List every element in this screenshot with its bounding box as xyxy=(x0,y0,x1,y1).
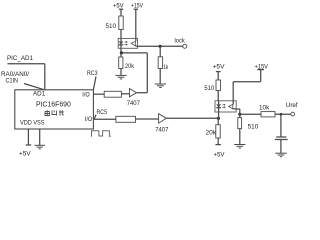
resistor 10k (output series) xyxy=(259,105,275,117)
clock waveform symbol xyxy=(91,131,111,137)
svg-text:510: 510 xyxy=(106,23,117,30)
ground (below 1k) xyxy=(155,84,166,88)
resistor 20k (pull to +5V) xyxy=(206,118,221,144)
terminal lock xyxy=(175,37,187,48)
wire RC3 pin xyxy=(93,93,104,95)
wire emitter node to 10k xyxy=(240,113,261,115)
svg-text:7407: 7407 xyxy=(127,100,140,107)
net label PIC_AD1 xyxy=(7,55,45,90)
node dot capacitor tap xyxy=(280,113,283,116)
buffer 7407 #1 xyxy=(127,89,140,107)
net label RC3 xyxy=(87,70,98,90)
svg-text:C1IN: C1IN xyxy=(6,78,19,85)
IC PIC16F690 microcontroller xyxy=(15,90,94,129)
power +5V (opto1 LED supply) xyxy=(113,2,124,16)
wire opto2 cathode to node xyxy=(218,112,220,118)
optocoupler U1 xyxy=(118,38,137,48)
resistor 510 (emitter load) xyxy=(238,114,259,144)
svg-text:1k: 1k xyxy=(163,64,169,71)
net label RA0/AN0/C1IN xyxy=(1,71,44,90)
svg-text:PIC16F690: PIC16F690 xyxy=(36,102,71,109)
svg-text:I/O: I/O xyxy=(82,91,89,98)
wire opto2 emitter xyxy=(236,109,240,114)
wire resistor to buffer2 xyxy=(136,118,159,120)
svg-text:RC3: RC3 xyxy=(87,70,98,77)
node dot opto1 cathode xyxy=(120,51,123,54)
svg-text:lock: lock xyxy=(175,37,186,44)
power +15V (opto2 collector supply) xyxy=(233,64,268,101)
svg-text:+5V: +5V xyxy=(19,150,31,157)
ground (below 20k opto1) xyxy=(115,75,126,79)
svg-text:I/O: I/O xyxy=(85,116,92,123)
svg-text:+5V: +5V xyxy=(213,63,225,70)
resistor RC3 series xyxy=(104,91,121,97)
svg-text:+5V: +5V xyxy=(113,2,124,9)
wire RC5 pin xyxy=(93,118,116,120)
node dot lock/1k xyxy=(159,45,162,48)
svg-text:7407: 7407 xyxy=(155,126,168,133)
power +5V (below 20k) xyxy=(214,145,226,159)
svg-text:20k: 20k xyxy=(206,129,217,136)
power +5V (opto2 LED supply) xyxy=(213,63,225,80)
svg-text:10k: 10k xyxy=(259,105,270,112)
node dot emitter/510/10k xyxy=(238,113,241,116)
svg-text:20k: 20k xyxy=(125,63,135,70)
power +15V (opto1 collector supply) xyxy=(131,2,143,38)
svg-text:+5V: +5V xyxy=(214,151,226,158)
wire buffer1 output xyxy=(136,92,147,94)
ground (VSS pin) xyxy=(35,129,45,149)
wire 10k to Uref terminal xyxy=(275,113,291,115)
node dot opto2 cathode xyxy=(217,117,220,120)
resistor RC5 series xyxy=(116,116,136,122)
buffer 7407 #2 xyxy=(155,114,168,134)
svg-text:PIC_AD1: PIC_AD1 xyxy=(7,55,33,62)
svg-text:AD1: AD1 xyxy=(33,91,46,98)
resistor 510 (opto1 LED series) xyxy=(106,16,124,38)
svg-text:RC5: RC5 xyxy=(97,109,108,116)
svg-text:510: 510 xyxy=(248,124,259,131)
svg-text:VDD VSS: VDD VSS xyxy=(20,120,45,127)
terminal Uref xyxy=(286,102,298,116)
ground (below 510) xyxy=(234,145,245,149)
power +5V (VDD pin) xyxy=(19,129,31,157)
wire buffer2 output to opto2 node xyxy=(166,117,218,119)
optocoupler U2 xyxy=(215,101,236,112)
label 单片机 (microcontroller, hand-drawn strokes) xyxy=(45,110,64,116)
svg-text:+15V: +15V xyxy=(131,2,143,9)
svg-text:Uref: Uref xyxy=(286,102,298,109)
resistor 510 (opto2 LED series) xyxy=(204,80,220,101)
svg-text:510: 510 xyxy=(204,85,214,92)
ground (below capacitor) xyxy=(275,153,287,157)
net label RC5 xyxy=(94,109,107,119)
resistor 20k (opto1 bleed) xyxy=(119,53,135,75)
resistor 1k (lock pulldown) xyxy=(158,46,169,84)
capacitor (output filter) xyxy=(275,114,288,153)
wire resistor to buffer1 xyxy=(121,93,129,95)
wire opto1 emitter to lock xyxy=(138,45,183,47)
wire opto1 cathode node xyxy=(121,48,147,92)
